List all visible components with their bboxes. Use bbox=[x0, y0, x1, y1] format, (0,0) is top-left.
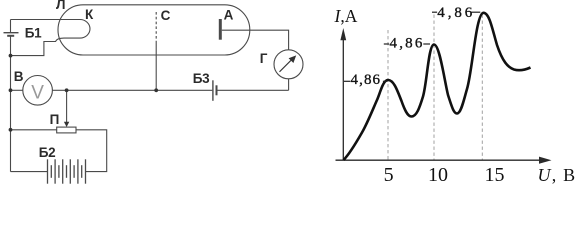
tick dash label3 left bbox=[432, 11, 437, 13]
wire lower cathode lead step bbox=[11, 42, 57, 56]
battery B1 short plate bbox=[7, 35, 14, 37]
tick dash label1 right bbox=[383, 80, 388, 82]
wire B2 left lead bbox=[11, 171, 48, 173]
y axis bbox=[342, 34, 344, 160]
battery B2 cells bbox=[48, 159, 86, 183]
I-U curve bbox=[344, 13, 531, 160]
svg-text:В: В bbox=[14, 69, 24, 84]
tube L envelope bbox=[58, 5, 250, 55]
svg-text:4,86: 4,86 bbox=[390, 35, 425, 51]
svg-text:15: 15 bbox=[485, 164, 505, 186]
wire B3 to galvanometer bbox=[217, 89, 288, 91]
tick dash label2 right bbox=[423, 43, 430, 45]
svg-text:4,86: 4,86 bbox=[351, 72, 382, 88]
anode A electrode bar bbox=[219, 19, 222, 40]
svg-text:Б1: Б1 bbox=[25, 26, 42, 41]
potentiometer wiper arrowhead bbox=[64, 122, 69, 127]
svg-text:I,А: I,А bbox=[334, 6, 358, 26]
x axis bbox=[336, 159, 542, 161]
dashed guide peak2 bbox=[433, 15, 435, 161]
svg-text:4,86: 4,86 bbox=[437, 5, 475, 21]
svg-text:Б3: Б3 bbox=[193, 71, 210, 86]
svg-text:U, В: U, В bbox=[538, 165, 576, 185]
dashed guide peak3 bbox=[481, 15, 483, 161]
tick dash label1 left bbox=[344, 80, 350, 82]
wire top cathode lead + cathode K loop bbox=[11, 20, 90, 42]
node junction potentiometer-left bbox=[9, 128, 13, 132]
wire anode lead to galvanometer bbox=[222, 30, 289, 50]
svg-text:Л: Л bbox=[56, 0, 65, 12]
svg-text:А: А bbox=[224, 8, 234, 23]
svg-text:П: П bbox=[50, 112, 60, 127]
battery B3 short plate bbox=[216, 85, 218, 95]
node junction grid bbox=[154, 88, 158, 92]
wire grid lead bbox=[155, 43, 157, 90]
wire voltmeter right lead to node bbox=[52, 89, 66, 91]
svg-text:Б2: Б2 bbox=[39, 145, 55, 160]
svg-text:V: V bbox=[31, 83, 44, 104]
galvanometer G bbox=[274, 50, 303, 79]
wire potentiometer wiper lead bbox=[66, 90, 68, 122]
node junction B1-bottom bbox=[9, 54, 13, 58]
wire left vertical bus bbox=[10, 36, 12, 171]
galvanometer needle arrowhead bbox=[289, 55, 297, 63]
wire bottom bus to battery B3 bbox=[67, 89, 213, 91]
wire voltmeter left lead bbox=[11, 89, 23, 91]
svg-text:10: 10 bbox=[428, 164, 448, 186]
svg-text:К: К bbox=[85, 7, 94, 22]
voltmeter V bbox=[23, 76, 53, 106]
svg-text:Г: Г bbox=[260, 51, 268, 66]
node junction voltmeter-left bbox=[9, 88, 13, 92]
node junction wiper bbox=[65, 88, 69, 92]
battery B3 long plate bbox=[212, 80, 214, 101]
battery B1 long plate bbox=[4, 32, 19, 34]
tick dash label2 left bbox=[384, 43, 389, 45]
wire potentiometer left lead bbox=[11, 129, 57, 131]
grid C dashed electrode bbox=[155, 12, 157, 43]
battery B1 top lead wire bbox=[10, 20, 12, 33]
potentiometer P body bbox=[57, 127, 76, 133]
wire potentiometer right lead down to battery B2 bbox=[76, 130, 107, 172]
tick dash label3 right bbox=[471, 11, 480, 13]
dashed guide peak1 bbox=[387, 30, 389, 160]
svg-text:С: С bbox=[161, 8, 171, 23]
svg-text:5: 5 bbox=[384, 164, 394, 186]
galvanometer needle bbox=[280, 59, 293, 72]
wire galvanometer bottom lead bbox=[288, 79, 290, 91]
